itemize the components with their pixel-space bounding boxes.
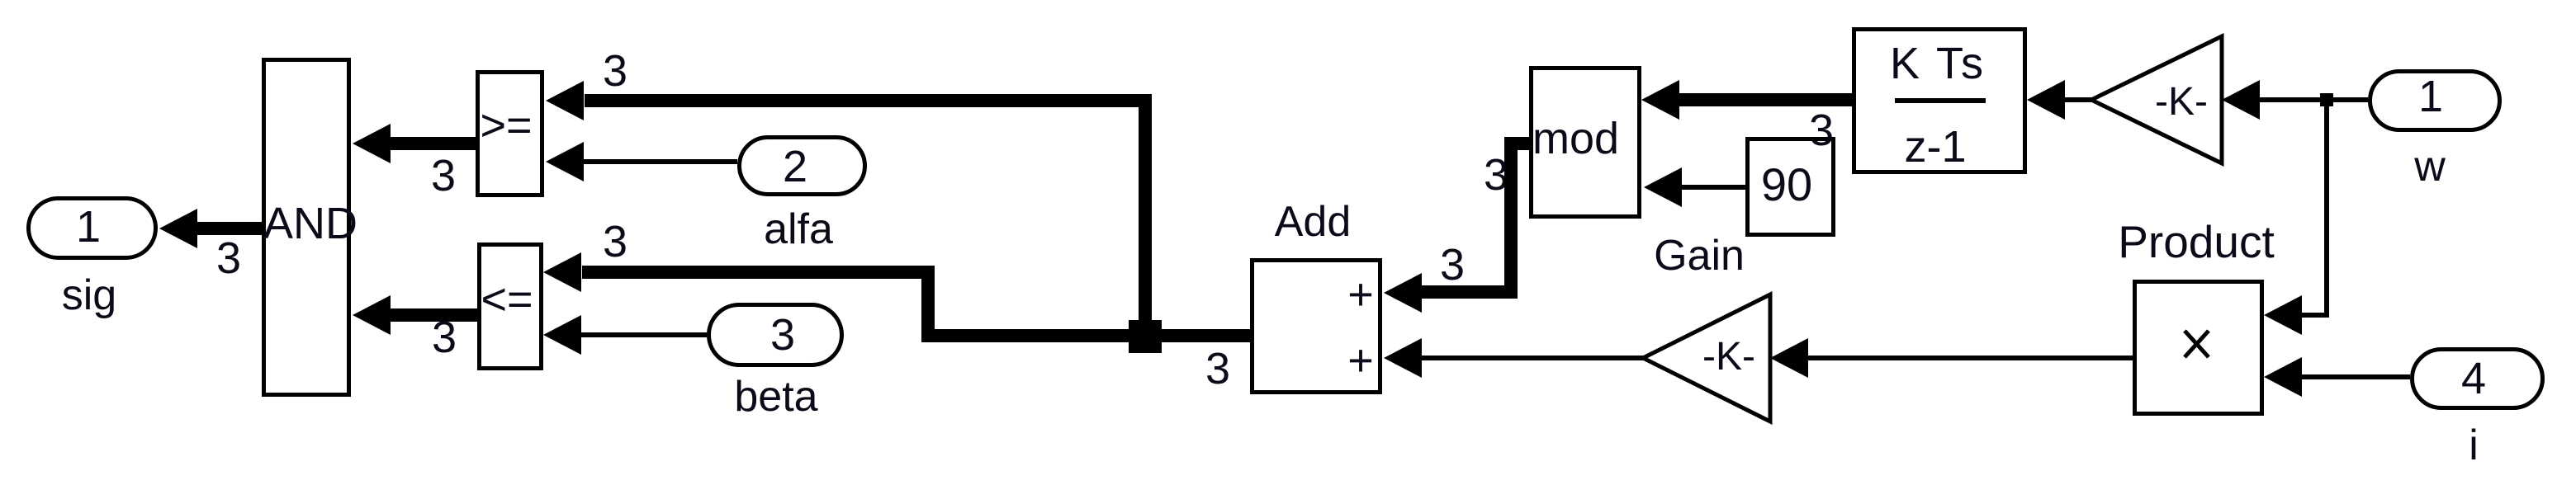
svg-text:2: 2 (783, 142, 807, 191)
junction dot on Add output wire (1129, 320, 1162, 353)
arrowhead into <= top input (543, 252, 581, 292)
inport oval beta (port 3) (709, 305, 842, 365)
svg-text:3: 3 (432, 313, 457, 362)
junction dot on w wire (2320, 93, 2333, 106)
arrowhead into sig (159, 209, 197, 248)
wire >= to AND (thick) (388, 137, 476, 150)
svg-text:3: 3 (1809, 106, 1834, 155)
svg-text:beta: beta (734, 373, 817, 421)
svg-text:3: 3 (1205, 344, 1230, 393)
gain triangle (bottom -K-) (1643, 294, 1770, 421)
arrowhead into <= bottom input (543, 315, 581, 355)
wire <= to AND (thick) (388, 308, 477, 322)
wire w to top gain (thin) (2260, 97, 2368, 102)
svg-text:Gain: Gain (1654, 232, 1745, 280)
logical operator block AND (263, 60, 358, 395)
svg-text:4: 4 (2461, 354, 2486, 403)
svg-text:<=: <= (481, 275, 533, 324)
wire gain to Add second input (thin) (1422, 356, 1643, 360)
arrowhead into >= top input (546, 81, 584, 120)
arrowhead into Add second input (1384, 338, 1422, 378)
wire K Ts to mod first input (thick) (1679, 93, 1852, 106)
svg-text:3: 3 (603, 217, 627, 266)
inport oval w (port 1) (2370, 72, 2500, 130)
svg-text:1: 1 (76, 202, 101, 252)
svg-text:+: + (1347, 270, 1374, 319)
arrowhead into K Ts input (2027, 80, 2065, 120)
wire w branch down to Product first input (thin) (2302, 100, 2327, 315)
relational operator block <= (480, 245, 542, 369)
arrowhead into AND bottom input (353, 295, 391, 335)
svg-text:AND: AND (263, 199, 358, 248)
wire top gain to K Ts (thin) (2065, 97, 2091, 102)
svg-text:>=: >= (480, 101, 532, 150)
wire Add output to junction then up-left to >= (thick) (585, 101, 1250, 336)
arrowhead into bottom gain input (1770, 338, 1808, 378)
svg-text:sig: sig (62, 271, 116, 319)
inport oval i (port 4) (2413, 350, 2543, 408)
arrowhead into mod first input (1641, 80, 1679, 120)
svg-text:K Ts: K Ts (1890, 39, 1986, 88)
arrowhead into mod second input (1644, 167, 1682, 207)
svg-text:alfa: alfa (764, 205, 833, 253)
arrowhead into Add first input (1384, 273, 1422, 313)
wire beta to <= (thin) (579, 332, 707, 337)
svg-text:3: 3 (1440, 240, 1465, 290)
math function block mod (1532, 68, 1640, 217)
wire 90 to mod second input (thin) (1682, 185, 1745, 190)
wire branch junction to <= (thick) (582, 272, 1145, 336)
svg-text:mod: mod (1532, 114, 1619, 163)
svg-text:90: 90 (1761, 158, 1812, 210)
svg-text:Product: Product (2118, 216, 2275, 267)
relational operator block >= (478, 73, 542, 195)
svg-text:3: 3 (431, 151, 456, 200)
outport oval sig (port 1) (29, 199, 156, 258)
wire alfa to >= (thin) (581, 159, 737, 164)
sum block Add (1252, 261, 1380, 393)
arrowhead into Product first input (2264, 295, 2302, 335)
svg-text:z-1: z-1 (1904, 122, 1966, 172)
svg-text:w: w (2413, 143, 2446, 191)
arrowhead into top gain input (2222, 80, 2260, 120)
svg-text:+: + (1347, 336, 1374, 385)
svg-text:3: 3 (770, 310, 795, 360)
wire AND to sig (thick) (195, 222, 262, 235)
product block (2135, 282, 2262, 414)
discrete transfer block K Ts / z-1 (1854, 30, 2025, 172)
svg-text:-K-: -K- (2155, 80, 2208, 124)
arrowhead into AND top input (353, 124, 391, 163)
arrowhead into >= bottom input (546, 142, 584, 181)
wire Product to bottom gain (thin) (1808, 356, 2133, 360)
wire mod to Add first input (thick) (1422, 144, 1529, 292)
svg-text:Add: Add (1275, 198, 1352, 246)
svg-text:1: 1 (2418, 72, 2443, 121)
gain triangle (top -K-) (2091, 36, 2222, 163)
arrowhead into Product second input (2264, 357, 2302, 397)
wire i to Product second input (thin) (2302, 374, 2410, 379)
constant block 90 (1748, 139, 1834, 235)
svg-text:i: i (2469, 421, 2479, 469)
svg-text:3: 3 (216, 233, 241, 283)
svg-text:-K-: -K- (1702, 335, 1755, 379)
svg-text:3: 3 (603, 46, 627, 96)
inport oval alfa (port 2) (740, 138, 865, 195)
